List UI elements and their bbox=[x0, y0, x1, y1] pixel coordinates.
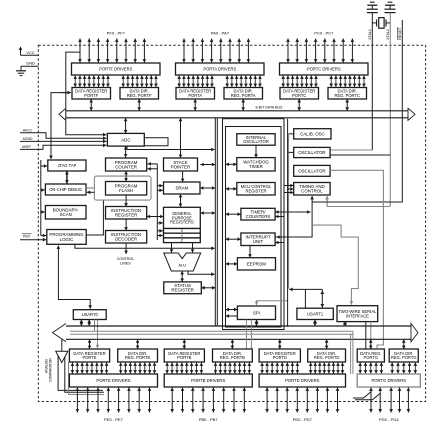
svg-text:PORTC DRIVERS: PORTC DRIVERS bbox=[307, 67, 341, 72]
svg-text:PORTF: PORTF bbox=[84, 93, 98, 98]
svg-text:PC0 - PC7: PC0 - PC7 bbox=[314, 31, 334, 36]
svg-text:AREF: AREF bbox=[22, 145, 31, 149]
arrow into data register portF bbox=[60, 91, 71, 95]
svg-text:PORTB DRIVERS: PORTB DRIVERS bbox=[191, 378, 225, 383]
arrow registers to ring bbox=[200, 211, 215, 215]
svg-text:AGND: AGND bbox=[23, 137, 33, 141]
arrows feed to sram bbox=[157, 184, 163, 192]
svg-text:COUNTERS: COUNTERS bbox=[246, 214, 271, 219]
arrow sram to registers bbox=[179, 194, 183, 207]
peripheral outer box bbox=[223, 119, 285, 330]
wire JTAG feed bundle bbox=[41, 160, 47, 237]
AREF label bbox=[22, 145, 31, 149]
svg-text:PORTD: PORTD bbox=[273, 355, 287, 360]
svg-text:ALU: ALU bbox=[179, 263, 187, 267]
8-bit data bus (bottom) bbox=[53, 324, 419, 342]
arrow data register PORTC to bus bbox=[297, 99, 301, 111]
arrow data dir reg PORTA to bus bbox=[241, 99, 245, 111]
wire portG drivers diagonal 1 bbox=[353, 392, 371, 398]
TIMING AND CONTROL block bbox=[294, 183, 330, 196]
svg-text:PORTG DRIVERS: PORTG DRIVERS bbox=[372, 378, 407, 383]
arrows twi to bus bbox=[343, 322, 347, 326]
gray analog comparator wire bbox=[69, 362, 105, 395]
wire register feed vertical bbox=[156, 164, 158, 240]
USART0 block bbox=[73, 310, 106, 320]
arrows data register PORTG to drivers bbox=[358, 363, 383, 374]
arrows data register PORTE to drivers bbox=[71, 363, 109, 374]
arrow bus to data register PORTE bbox=[88, 339, 92, 349]
arrow bus to data register PORTG bbox=[369, 339, 373, 349]
arrows feed to program counter bbox=[148, 162, 158, 171]
DATA DIR REG PORTE block bbox=[118, 349, 158, 362]
svg-text:ON-CHIP DEBUG: ON-CHIP DEBUG bbox=[49, 187, 82, 192]
analog comparator bbox=[44, 351, 68, 382]
arrows PORTC DRIVERS to data register PORTC bbox=[281, 76, 318, 88]
arrow timer/counters left bbox=[226, 212, 241, 216]
svg-text:8-BIT DATA BUS: 8-BIT DATA BUS bbox=[256, 106, 284, 110]
svg-text:SCAN: SCAN bbox=[60, 212, 72, 217]
arrow bus to data register PORTD bbox=[278, 339, 282, 349]
PORTG DRIVERS block bbox=[357, 374, 420, 387]
svg-text:CONTROL: CONTROL bbox=[301, 189, 323, 194]
GENERAL PURPOSE REGISTERS block with X Y Z bbox=[164, 207, 201, 242]
wire ALU output to ring bbox=[188, 271, 215, 276]
svg-text:SRAM: SRAM bbox=[175, 186, 188, 191]
DATA REGISTER PORTE block bbox=[69, 349, 109, 362]
pin arrows PF0 - PF7 bbox=[78, 39, 146, 63]
DATA REGISTER PORTB block bbox=[164, 349, 204, 362]
pin label PE0 - PE7 bbox=[104, 417, 123, 422]
svg-text:REG. PORTB: REG. PORTB bbox=[220, 355, 245, 360]
svg-text:PB0 - PB7: PB0 - PB7 bbox=[199, 417, 218, 422]
8-BIT DATA BUS label bbox=[256, 106, 284, 110]
arrow ADC to program counter bbox=[124, 146, 128, 157]
arrow bus to data dir reg PORTE bbox=[136, 339, 140, 349]
wire portF to JTAG TAP bbox=[49, 93, 70, 159]
arrows data dir PORTB to drivers bbox=[214, 363, 252, 374]
OSCILLATOR 2 block bbox=[294, 165, 330, 176]
svg-text:TIMER: TIMER bbox=[249, 164, 263, 169]
wire interrupt to timing and control bbox=[275, 196, 314, 239]
svg-text:RESET: RESET bbox=[398, 27, 402, 40]
svg-text:PD0 - PD7: PD0 - PD7 bbox=[293, 417, 313, 422]
svg-text:PORTA DRIVERS: PORTA DRIVERS bbox=[203, 67, 236, 72]
svg-text:XTAL2: XTAL2 bbox=[386, 29, 390, 40]
gray clock vertical bbox=[288, 134, 290, 289]
wire AGND to ADC bbox=[20, 140, 106, 144]
VCC pin bbox=[19, 47, 39, 56]
wire XTAL2 to oscillator bbox=[330, 154, 390, 156]
svg-text:PORTE: PORTE bbox=[82, 355, 96, 360]
PEN label (active low) bbox=[22, 234, 32, 239]
svg-text:LINES: LINES bbox=[120, 261, 131, 265]
arrow feed to registers bbox=[157, 221, 163, 225]
arrow bus to data register PORTB bbox=[183, 339, 187, 349]
svg-text:FLASH: FLASH bbox=[119, 188, 133, 193]
arrows data dir PORTG to drivers bbox=[390, 363, 417, 374]
svg-text:PORTC: PORTC bbox=[292, 93, 306, 98]
arrow stack pointer to ring bbox=[200, 163, 215, 167]
arrows usart1 to bus bbox=[313, 320, 317, 327]
wire programming logic to usart0 bbox=[57, 246, 93, 309]
arrows PORTF DRIVERS to data dir reg PORTF bbox=[121, 76, 157, 88]
arrow data register PORTF to bus bbox=[89, 99, 93, 111]
arrow bus to data dir reg PORTB bbox=[231, 339, 235, 349]
arrows feed to X Y registers bbox=[157, 229, 163, 237]
pin arrows PE0 - PE7 bbox=[76, 388, 152, 413]
wire twi down to portG bbox=[365, 322, 367, 349]
svg-text:USART1: USART1 bbox=[307, 311, 324, 316]
CALIB. OSC block bbox=[294, 129, 331, 139]
svg-text:PE0 - PE7: PE0 - PE7 bbox=[104, 417, 123, 422]
pin label PC0 - PC7 bbox=[314, 31, 334, 36]
TIMER/COUNTERS block bbox=[241, 208, 275, 220]
AVCC label bbox=[23, 128, 33, 132]
wires into timing and control bbox=[284, 184, 294, 195]
wire AVCC to ADC bbox=[20, 133, 106, 140]
svg-text:CALIB. OSC: CALIB. OSC bbox=[300, 131, 325, 136]
ALU block bbox=[164, 253, 201, 271]
arrows PORTF DRIVERS to data register PORTF bbox=[73, 76, 109, 88]
svg-text:REG. PORTE: REG. PORTE bbox=[125, 355, 150, 360]
svg-text:POINTER: POINTER bbox=[171, 164, 191, 169]
arrow into interrupt right bbox=[275, 241, 284, 245]
BOUNDARY-SCAN block bbox=[45, 206, 86, 220]
PORTF DRIVERS block bbox=[72, 63, 161, 75]
arrow instruction register to decoder bbox=[124, 219, 128, 231]
STACK POINTER block bbox=[164, 158, 198, 171]
arrows spi left bbox=[226, 308, 238, 318]
DATA DIR REG PORTB block bbox=[213, 349, 253, 362]
USART1 block bbox=[297, 308, 333, 319]
svg-text:PORTB: PORTB bbox=[177, 355, 191, 360]
arrow loop to on-chip debug bbox=[87, 191, 95, 195]
svg-text:OSCILLATOR: OSCILLATOR bbox=[298, 150, 325, 155]
PORTD DRIVERS block bbox=[259, 374, 345, 387]
svg-text:PORTF DRIVERS: PORTF DRIVERS bbox=[99, 67, 132, 72]
wire ADC right loop bbox=[144, 138, 168, 146]
INSTRUCTION REGISTER block bbox=[106, 207, 147, 220]
DATA REGISTER PORTG block bbox=[357, 349, 384, 362]
arrow sram to ring bbox=[200, 186, 215, 190]
wire usart1 to peripheral box bbox=[289, 288, 322, 292]
svg-text:INTERFACE: INTERFACE bbox=[346, 313, 369, 318]
pin arrows PG0 - PG4 bbox=[369, 388, 410, 413]
pin arrows PC0 - PC7 bbox=[286, 39, 354, 63]
wire analog comparator input 1 bbox=[58, 356, 103, 390]
STATUS REGISTER block bbox=[164, 282, 202, 294]
gray wires to portG drivers bbox=[351, 331, 353, 374]
pin label PA0 - PA7 bbox=[211, 31, 230, 36]
svg-text:REGISTERS: REGISTERS bbox=[170, 220, 194, 225]
wire PEN to programming logic bbox=[20, 238, 46, 242]
wire ADC output to bus ring bbox=[127, 146, 215, 151]
arrow interrupt left bbox=[226, 237, 241, 241]
svg-text:COUNTER: COUNTER bbox=[115, 164, 137, 169]
svg-text:COMPARATOR: COMPARATOR bbox=[49, 358, 53, 382]
wire programming logic up bbox=[86, 200, 103, 235]
svg-text:USART0: USART0 bbox=[82, 312, 99, 317]
DATA DIR. REG. PORTA block bbox=[224, 88, 263, 100]
arrow data dir reg PORTF to bus bbox=[137, 99, 141, 111]
arrows PORTA DRIVERS to data register PORTA bbox=[177, 76, 214, 88]
svg-text:REG. PORTF: REG. PORTF bbox=[127, 93, 152, 98]
DATA DIR. REG. PORTC block bbox=[328, 88, 367, 100]
gray loop around program flash bbox=[86, 176, 151, 200]
arrow flash to instruction register bbox=[124, 195, 128, 207]
wire usart1 top connector bbox=[304, 289, 306, 308]
DATA REGISTER PORTD block bbox=[259, 349, 300, 362]
DATA DIR REG PORTD block bbox=[308, 349, 346, 362]
CONTROL LINES label bbox=[117, 257, 135, 266]
pin label PB0 - PB7 bbox=[199, 417, 218, 422]
wire XTAL2 line (gray) bbox=[389, 13, 391, 207]
RESET label (active low) bbox=[397, 27, 402, 40]
SRAM block bbox=[164, 182, 201, 194]
INTERNAL OSCILLATOR block bbox=[237, 134, 275, 146]
arrow bus to data dir reg PORTD bbox=[325, 339, 329, 349]
wire analog comparator input 2 bbox=[65, 357, 104, 392]
arrow mcu control left bbox=[226, 187, 237, 191]
PORTC DRIVERS block bbox=[280, 63, 369, 75]
gray bus wires bbox=[70, 331, 353, 334]
svg-text:SPI: SPI bbox=[253, 310, 260, 315]
arrow eeprom left bbox=[226, 262, 238, 266]
DATA DIR REG PORTG block bbox=[389, 349, 418, 362]
OSCILLATOR block bbox=[294, 147, 330, 157]
svg-text:PF0 - PF7: PF0 - PF7 bbox=[107, 31, 126, 36]
pin arrows PB0 - PB7 bbox=[170, 388, 246, 413]
arrow bus to data dir reg PORTG bbox=[402, 339, 406, 349]
gray wire to spi top bbox=[255, 301, 288, 305]
wire clock to oscillator bbox=[289, 151, 294, 153]
arrow decoder to control lines bbox=[124, 243, 128, 254]
svg-text:PORTD DRIVERS: PORTD DRIVERS bbox=[285, 378, 320, 383]
SPI block bbox=[237, 306, 275, 320]
wire portG drivers diagonal 2 bbox=[355, 393, 380, 400]
wire XTAL1 to oscillator (gray) bbox=[330, 149, 372, 151]
arrow data dir reg PORTC to bus bbox=[345, 99, 349, 111]
wire timer/counters to timing bbox=[275, 210, 310, 218]
svg-text:PORTA: PORTA bbox=[188, 93, 202, 98]
PORTA DRIVERS block bbox=[176, 63, 265, 75]
arrows PORTC DRIVERS to data dir reg PORTC bbox=[329, 76, 366, 88]
svg-text:LOGIC: LOGIC bbox=[60, 237, 74, 242]
XTAL2 label bbox=[386, 29, 390, 40]
svg-text:XTAL1: XTAL1 bbox=[368, 29, 372, 40]
GND pin with ground symbol bbox=[16, 61, 39, 76]
ON-CHIP DEBUG block bbox=[45, 184, 86, 195]
chip boundary (dashed border) bbox=[38, 45, 425, 401]
EEPROM block bbox=[237, 258, 275, 270]
arrow watchdog left bbox=[226, 163, 237, 167]
svg-text:DECODER: DECODER bbox=[115, 237, 137, 242]
wire calib osc left bbox=[289, 133, 294, 135]
peripheral inner box bbox=[226, 127, 282, 328]
wire bus to analog comparator bbox=[61, 339, 63, 351]
svg-text:ADC: ADC bbox=[121, 137, 130, 142]
INTERRUPT UNIT block bbox=[241, 233, 275, 246]
WATCHDOG TIMER block bbox=[237, 158, 275, 171]
arrow data register PORTA to bus bbox=[193, 99, 197, 111]
wire XTAL2 to timing and control (gray) bbox=[325, 196, 390, 207]
pin label PG0 - PG4 bbox=[379, 417, 399, 422]
wire RESET line bbox=[312, 20, 402, 202]
svg-text:UNIT: UNIT bbox=[253, 239, 264, 244]
AGND label bbox=[23, 137, 33, 141]
arrow JTAG to on-chip debug bbox=[65, 171, 69, 184]
arrows usart0 to bus bbox=[80, 320, 91, 327]
PROGRAMMING LOGIC block bbox=[47, 230, 86, 245]
svg-text:REG. PORTG: REG. PORTG bbox=[391, 355, 417, 360]
arrow stack pointer to sram bbox=[181, 171, 185, 182]
svg-text:PORTG: PORTG bbox=[364, 355, 378, 360]
arrows data register PORTD to drivers bbox=[260, 363, 299, 374]
ADC block bbox=[107, 133, 144, 146]
svg-text:REG. PORTC: REG. PORTC bbox=[334, 93, 359, 98]
arrows data dir PORTD to drivers bbox=[309, 363, 345, 374]
wire portF pins to ADC bbox=[66, 52, 107, 136]
DATA REGISTER PORTA block bbox=[176, 88, 215, 100]
capacitor + ground on XTAL2 bbox=[385, 2, 396, 12]
arrows registers to ALU bbox=[170, 243, 195, 253]
svg-text:PG0 - PG4: PG0 - PG4 bbox=[379, 417, 399, 422]
svg-text:PA0 - PA7: PA0 - PA7 bbox=[211, 31, 230, 36]
TWO-WIRE SERIAL INTERFACE block bbox=[337, 306, 378, 322]
gray usart0 wires bbox=[95, 320, 100, 349]
JTAG TAP block bbox=[48, 160, 86, 171]
svg-text:AVCC: AVCC bbox=[23, 128, 33, 132]
gray twi wire down bbox=[370, 322, 372, 348]
capacitor + ground on XTAL1 bbox=[367, 2, 378, 12]
DATA REGISTER PORTF block bbox=[72, 88, 111, 100]
svg-text:OSCILLATOR: OSCILLATOR bbox=[243, 139, 269, 144]
pin label PD0 - PD7 bbox=[293, 417, 313, 422]
pin arrows PA0 - PA7 bbox=[182, 39, 250, 63]
arrow instruction register to registers bbox=[147, 215, 164, 219]
wire AREF to ADC bbox=[20, 144, 106, 150]
pin arrows PD0 - PD7 bbox=[265, 388, 339, 413]
XTAL1 label bbox=[368, 29, 372, 40]
pin label PF0 - PF7 bbox=[107, 31, 126, 36]
svg-text:VCC: VCC bbox=[26, 50, 34, 55]
crystal bbox=[372, 18, 390, 29]
svg-text:CONTROL: CONTROL bbox=[117, 257, 135, 261]
gray spi wires to portB bbox=[246, 320, 251, 350]
svg-text:PORTE DRIVERS: PORTE DRIVERS bbox=[96, 378, 130, 383]
arrow ALU to status register bbox=[180, 271, 184, 282]
arrows data register PORTB to drivers bbox=[165, 363, 203, 374]
arrows PORTA DRIVERS to data dir reg PORTA bbox=[225, 76, 261, 88]
arrow stack pointer to bus bbox=[179, 118, 183, 158]
arrow internal osc to watchdog bbox=[254, 145, 258, 157]
svg-text:GND: GND bbox=[26, 61, 35, 66]
svg-text:EEPROM: EEPROM bbox=[247, 261, 266, 266]
arrow bus to ADC bbox=[124, 118, 128, 134]
svg-text:PEN: PEN bbox=[23, 234, 31, 238]
wire XTAL1 line bbox=[371, 13, 373, 150]
MCU CONTROL REGISTER block bbox=[237, 183, 275, 196]
gray clock wire B bbox=[330, 170, 383, 348]
svg-text:REG. PORTD: REG. PORTD bbox=[314, 355, 339, 360]
svg-text:REGISTER: REGISTER bbox=[171, 288, 193, 293]
arrows data dir PORTE to drivers bbox=[119, 363, 156, 374]
arrow program counter to flash bbox=[124, 171, 128, 182]
arrow interrupt to eeprom bbox=[248, 246, 252, 258]
wire programming logic to control bbox=[75, 244, 215, 250]
PORTB DRIVERS block bbox=[164, 374, 252, 387]
8-bit data bus (top) bbox=[59, 108, 415, 120]
DATA REGISTER PORTC block bbox=[280, 88, 319, 100]
wire usart1 top arrow bbox=[320, 289, 324, 308]
PROGRAM FLASH block bbox=[106, 182, 147, 196]
svg-text:REGISTER: REGISTER bbox=[115, 213, 137, 218]
PORTE DRIVERS block bbox=[69, 374, 157, 387]
arrow status register to ring bbox=[201, 286, 215, 290]
INSTRUCTION DECODER block bbox=[106, 231, 147, 244]
gray clock wire A bbox=[312, 225, 358, 305]
arrow spi to bus bbox=[255, 320, 259, 327]
DATA DIR. REG. PORTF block bbox=[120, 88, 159, 100]
svg-text:OSCILLATOR: OSCILLATOR bbox=[298, 168, 325, 173]
svg-text:REG. PORTA: REG. PORTA bbox=[231, 93, 256, 98]
wire peripheral right vertical bbox=[287, 119, 289, 327]
svg-text:JTAG TAP: JTAG TAP bbox=[57, 163, 76, 168]
PROGRAM COUNTER block bbox=[106, 158, 147, 171]
svg-text:REGISTER: REGISTER bbox=[246, 188, 267, 193]
wire bus ring middle bbox=[215, 118, 217, 326]
